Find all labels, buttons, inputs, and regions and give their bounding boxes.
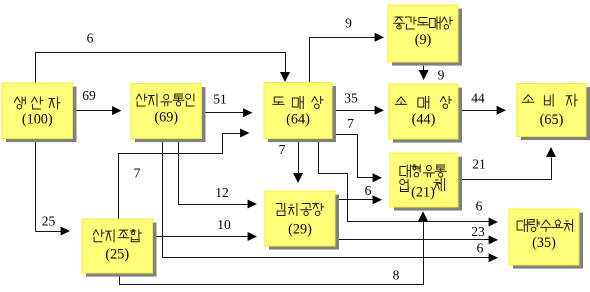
svg-text:69: 69 (82, 88, 96, 103)
svg-text:8: 8 (393, 268, 400, 283)
svg-text:35: 35 (344, 91, 358, 106)
wire 대형유통업체→소비자 (21) (459, 147, 557, 180)
svg-text:6: 6 (365, 183, 372, 198)
wire 산지조합→김치공장 (10) (155, 217, 258, 241)
svg-text:(21): (21) (411, 184, 435, 200)
box 대량수요처 (35) (509, 209, 583, 269)
wire 김치공장→대형유통업체 (6) (336, 183, 383, 204)
wire 도매상→중간도매상 (9) (310, 16, 385, 83)
svg-text:7: 7 (279, 142, 286, 157)
svg-text:(65): (65) (540, 112, 564, 128)
box 산지유통인 (69) (131, 84, 206, 143)
svg-text:(69): (69) (154, 110, 178, 126)
wire 도매상→소매상 (35) (333, 91, 385, 115)
svg-text:23: 23 (471, 224, 485, 239)
svg-text:(29): (29) (288, 222, 312, 238)
wire 소매상→소비자 (44) (459, 91, 507, 115)
svg-text:(100): (100) (22, 111, 53, 127)
box 소비자 (65) (517, 84, 590, 141)
svg-text:(64): (64) (286, 111, 310, 127)
wire 산지유통인→도매상 (51) (202, 92, 253, 118)
svg-text:6: 6 (87, 31, 94, 46)
svg-text:6: 6 (476, 199, 483, 214)
svg-text:7: 7 (134, 166, 141, 181)
wire 도매상→대량수요처 (6) (319, 139, 499, 227)
svg-text:(25): (25) (105, 246, 129, 262)
box 생산자 (100) (2, 83, 77, 142)
wire 중간도매상→소매상 (9) (419, 63, 445, 83)
box 산지조합 (25) (82, 219, 157, 277)
wire 도매상→김치공장 (7) (279, 139, 303, 184)
svg-text:9: 9 (345, 16, 352, 31)
wire 생산자→산지유통인 (69) (73, 88, 122, 115)
svg-text:12: 12 (215, 185, 229, 200)
wire 산지유통인→대량수요처 (6) (163, 139, 499, 263)
box 대형유통업체 (21) (390, 153, 462, 211)
wire 생산자→산지조합 (25) (36, 139, 71, 236)
box 소매상 (44) (389, 84, 462, 143)
svg-text:10: 10 (217, 217, 231, 232)
svg-text:(9): (9) (415, 32, 432, 48)
svg-text:25: 25 (42, 214, 56, 229)
svg-text:21: 21 (472, 157, 486, 172)
svg-text:7: 7 (347, 116, 354, 131)
wire 산지조합→대형유통업체 (8) (120, 211, 429, 284)
svg-text:(44): (44) (412, 112, 436, 128)
wire 산지조합→도매상 (7) (119, 129, 250, 220)
svg-text:9: 9 (438, 68, 445, 83)
box 김치공장 (29) (265, 191, 339, 250)
svg-text:6: 6 (477, 241, 484, 256)
svg-text:44: 44 (471, 91, 485, 106)
wire 도매상→대형유통업체 (7) (333, 116, 383, 182)
wire 생산자→도매상 (6) (36, 31, 291, 84)
svg-text:(35): (35) (532, 235, 556, 251)
box 중간도매상 (9) (388, 5, 462, 66)
svg-text:51: 51 (213, 92, 227, 107)
wire 산지유통인→김치공장 (12) (179, 139, 258, 209)
label 대형유통업체 (21) text (400, 165, 446, 200)
wire 김치공장→대량수요처 (23) (336, 224, 499, 244)
box 도매상 (64) (264, 83, 336, 143)
